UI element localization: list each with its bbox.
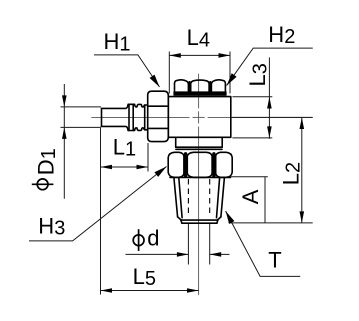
svg-text:A: A [238, 189, 263, 204]
svg-text:L1: L1 [113, 134, 136, 160]
svg-text:L4: L4 [187, 25, 210, 51]
svg-text:L3: L3 [245, 63, 271, 86]
svg-text:H1: H1 [104, 29, 131, 55]
svg-text:H2: H2 [268, 22, 295, 48]
svg-text:H3: H3 [38, 213, 65, 239]
svg-text:D1: D1 [34, 148, 60, 175]
svg-text:d: d [147, 225, 159, 250]
svg-text:T: T [268, 247, 281, 272]
svg-text:L5: L5 [133, 264, 156, 290]
svg-text:L2: L2 [278, 162, 304, 185]
